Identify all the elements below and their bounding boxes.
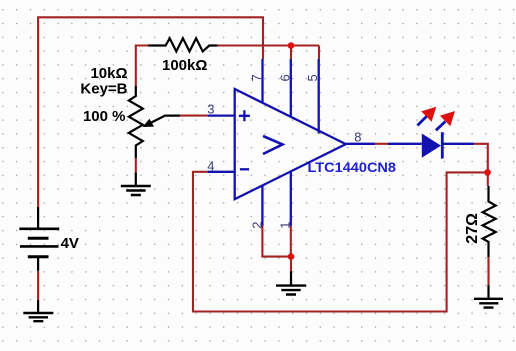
svg-text:2: 2 <box>250 222 265 229</box>
svg-text:3: 3 <box>207 102 214 117</box>
svg-text:5: 5 <box>305 74 320 81</box>
svg-text:7: 7 <box>249 74 264 81</box>
svg-text:10kΩ: 10kΩ <box>90 65 127 82</box>
svg-text:LTC1440CN8: LTC1440CN8 <box>308 160 397 175</box>
svg-text:6: 6 <box>277 74 292 81</box>
svg-text:27Ω: 27Ω <box>464 213 481 244</box>
svg-text:100kΩ: 100kΩ <box>162 57 207 74</box>
svg-text:Key=B: Key=B <box>80 80 127 97</box>
svg-text:8: 8 <box>354 129 361 144</box>
svg-text:1: 1 <box>278 222 293 229</box>
svg-text:4: 4 <box>207 158 214 173</box>
svg-text:100 %: 100 % <box>83 108 126 125</box>
svg-text:4V: 4V <box>61 235 79 252</box>
